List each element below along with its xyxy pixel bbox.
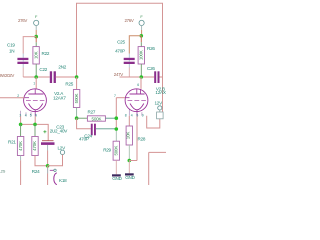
resistor R21 bbox=[17, 124, 23, 185]
wire junction to C19 bbox=[23, 37, 36, 54]
junction dot A3 bbox=[75, 75, 79, 79]
svg-text:R22: R22 bbox=[42, 51, 50, 56]
wire plate pin6 to rail bbox=[140, 77, 142, 89]
svg-text:12AX7: 12AX7 bbox=[155, 90, 166, 95]
wire bottom right corner bbox=[149, 152, 166, 185]
svg-text:4: 4 bbox=[25, 113, 27, 117]
svg-text:470K: 470K bbox=[18, 141, 23, 151]
wire grid pin2 bbox=[0, 97, 24, 99]
svg-text:470K: 470K bbox=[32, 141, 37, 151]
capacitor C19 bbox=[17, 58, 28, 64]
svg-text:10K: 10K bbox=[33, 51, 38, 59]
node F left bbox=[34, 20, 39, 25]
svg-text:9: 9 bbox=[142, 113, 144, 117]
svg-text:4: 4 bbox=[131, 113, 133, 117]
ground GND2 bbox=[125, 173, 136, 180]
junction dot B2 bbox=[140, 75, 144, 79]
wire 247V rail bbox=[120, 76, 155, 78]
junction dot A6 bbox=[115, 127, 119, 131]
svg-text:470P: 470P bbox=[115, 49, 125, 54]
junction dot A7 bbox=[19, 123, 23, 127]
svg-text:276V: 276V bbox=[18, 18, 27, 23]
wire grid pin7 bbox=[116, 97, 125, 99]
connector 12V box bbox=[157, 110, 164, 119]
svg-text:5: 5 bbox=[30, 113, 32, 117]
wire C22 to grid junction bbox=[56, 76, 77, 78]
svg-text:L2V: L2V bbox=[58, 145, 67, 150]
resistor R27 bbox=[77, 116, 117, 122]
wire C26 to right rail bbox=[160, 76, 163, 78]
svg-text:500K: 500K bbox=[74, 93, 79, 103]
wire top supply rail bbox=[77, 3, 163, 112]
wire C24 right to grid net bbox=[96, 128, 116, 130]
wire grid net vertical bbox=[115, 98, 117, 130]
svg-text:R29: R29 bbox=[103, 147, 111, 152]
svg-text:C22: C22 bbox=[39, 67, 47, 72]
wire 202V rail bbox=[23, 76, 50, 78]
wire F stub right bbox=[141, 25, 143, 30]
connector K18 bbox=[50, 169, 57, 185]
svg-text:C19: C19 bbox=[7, 42, 15, 47]
capacitor C22 bbox=[50, 71, 56, 83]
capacitor C23 bbox=[41, 130, 55, 145]
svg-text:GND: GND bbox=[125, 175, 135, 180]
wire heater pin path bbox=[147, 116, 160, 128]
wire plate pin1 to rail bbox=[35, 77, 37, 89]
tube V2.B bbox=[125, 89, 148, 116]
wire C23 to cathode dot bbox=[47, 145, 49, 151]
junction dot B1 bbox=[140, 34, 144, 38]
svg-text:R27: R27 bbox=[88, 109, 96, 114]
svg-text:R24: R24 bbox=[32, 169, 40, 174]
junction dot A1 bbox=[34, 35, 38, 39]
svg-text:470P: 470P bbox=[79, 137, 89, 142]
svg-text:R25: R25 bbox=[65, 82, 73, 87]
node F right bbox=[139, 20, 144, 25]
junction dot A5 bbox=[115, 116, 119, 120]
svg-text:8: 8 bbox=[125, 113, 127, 117]
svg-text:R21: R21 bbox=[8, 139, 16, 144]
wire C19 to rail bbox=[22, 64, 24, 68]
junction dot A8 bbox=[33, 123, 37, 127]
node L2V bbox=[60, 150, 64, 154]
svg-text:2U2_40V: 2U2_40V bbox=[50, 128, 69, 133]
junction dot A2 bbox=[34, 75, 38, 79]
wire R28 to ground bbox=[128, 161, 130, 174]
wire L2V to junction bbox=[48, 155, 63, 166]
wire cathode rail bbox=[21, 116, 49, 141]
ground GND1 bbox=[112, 174, 123, 181]
resistor R25 bbox=[73, 77, 79, 118]
svg-text:100K: 100K bbox=[139, 50, 144, 60]
wire C25 to rail bbox=[128, 64, 130, 68]
svg-text:L2S: L2S bbox=[0, 169, 6, 174]
resistor R26 bbox=[138, 36, 144, 77]
svg-text:500K: 500K bbox=[92, 116, 102, 121]
wire F to junction right bbox=[141, 30, 143, 36]
svg-text:10K: 10K bbox=[126, 132, 131, 140]
svg-text:K18: K18 bbox=[59, 178, 67, 183]
svg-text:6: 6 bbox=[137, 83, 139, 87]
capacitor C24 bbox=[91, 124, 96, 136]
svg-text:247V: 247V bbox=[114, 72, 123, 77]
svg-text:12AX7: 12AX7 bbox=[53, 95, 66, 100]
svg-text:276V: 276V bbox=[125, 18, 134, 23]
wire R25 bottom to C24 bbox=[77, 118, 91, 129]
wire F to junction bbox=[35, 30, 37, 37]
svg-text:500K: 500K bbox=[114, 146, 119, 156]
resistor R24 bbox=[32, 124, 48, 165]
junction dot A4 bbox=[75, 116, 79, 120]
svg-text:2N2: 2N2 bbox=[58, 65, 66, 70]
svg-text:7: 7 bbox=[114, 94, 116, 98]
svg-text:C25: C25 bbox=[117, 39, 125, 44]
wire junction to C25 bbox=[129, 36, 141, 54]
junction dot B3 bbox=[128, 159, 132, 163]
tube V2.A bbox=[21, 89, 47, 116]
resistor R22 bbox=[33, 37, 39, 77]
wire cathode to heater net bbox=[129, 116, 137, 160]
svg-text:GND: GND bbox=[112, 176, 122, 181]
wire F stub bbox=[35, 25, 37, 30]
wire junction down to edge bbox=[47, 166, 49, 185]
capacitor C25 bbox=[124, 58, 135, 64]
junction dot A9 bbox=[46, 164, 50, 168]
svg-text:1N: 1N bbox=[9, 48, 14, 53]
svg-text:C26: C26 bbox=[147, 66, 155, 71]
capacitor C26 bbox=[154, 71, 159, 83]
resistor R28 bbox=[126, 116, 133, 161]
resistor R29 bbox=[113, 141, 119, 174]
svg-text:R26: R26 bbox=[147, 46, 155, 51]
svg-text:1: 1 bbox=[33, 82, 35, 86]
svg-text:8W202V: 8W202V bbox=[0, 73, 14, 78]
svg-text:R28: R28 bbox=[138, 137, 146, 142]
svg-text:12V: 12V bbox=[155, 100, 164, 105]
